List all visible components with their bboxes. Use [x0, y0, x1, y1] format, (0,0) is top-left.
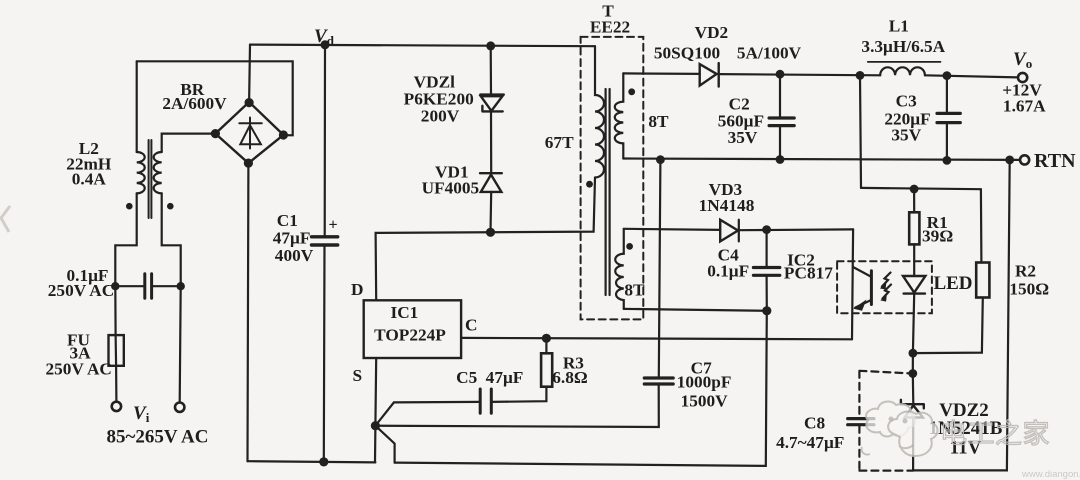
node Vd [321, 40, 330, 49]
transformer bias winding 8T [615, 229, 623, 309]
transformer bias phase dot [626, 243, 633, 250]
phototransistor emitter diagonal with arrow [855, 300, 871, 308]
wire VD3 to opto vertical [739, 228, 853, 231]
bridge node top [245, 98, 254, 107]
bridge BR diamond [215, 102, 283, 163]
wire VD1 to drain line [489, 192, 492, 233]
wire opto collector-emitter vertical [852, 229, 853, 339]
svg-text:+: + [328, 217, 337, 234]
svg-text:1000pF: 1000pF [677, 373, 732, 392]
svg-text:35V: 35V [728, 128, 758, 147]
transformer primary phase dot [586, 181, 593, 188]
node R1 top [910, 185, 919, 194]
wire bias return [624, 309, 767, 311]
fuse FU body [109, 335, 124, 366]
capacitor C4 plates [753, 268, 779, 276]
node C4 top [762, 225, 771, 234]
svg-text:200V: 200V [421, 107, 460, 126]
light arrow 2 head [880, 295, 887, 302]
node bias return junction [762, 306, 771, 315]
svg-text:0.1μF: 0.1μF [707, 262, 749, 281]
capacitor C3 bottom lead [946, 123, 948, 160]
svg-text:D: D [351, 280, 363, 299]
capacitor C3 plates [937, 113, 960, 122]
wire L2 left bottom jog [115, 193, 136, 286]
resistor R2 body [976, 263, 989, 298]
node VD1 drain junction [486, 228, 495, 237]
node S junction [371, 421, 380, 430]
svg-text:C3: C3 [896, 92, 917, 111]
svg-text:85~265V AC: 85~265V AC [107, 427, 209, 448]
wire bottom rail left part [248, 461, 376, 462]
wire bridge bottom drop [246, 163, 249, 461]
resistor R2 top lead [980, 189, 983, 262]
wire RTN rail [623, 159, 1020, 160]
bridge BR inner diode [239, 118, 261, 149]
diode LED of optocoupler [903, 276, 925, 294]
edge artifact smudge [1, 206, 10, 232]
svg-text:250V AC: 250V AC [48, 281, 114, 300]
capacitor C1 plates [312, 237, 338, 245]
node R3 top junction [542, 334, 551, 343]
svg-text:5A/100V: 5A/100V [737, 44, 802, 63]
wire S node to C7 bottom [375, 384, 658, 427]
wire top rail to bridge top [248, 45, 251, 102]
node C7 RTN junction [656, 155, 665, 164]
L2 phase dot right [167, 203, 174, 210]
svg-text:35V: 35V [891, 126, 921, 145]
diode VD2 [700, 63, 719, 87]
wire drain line [376, 178, 595, 301]
svg-text:67T: 67T [545, 133, 574, 152]
svg-text:1500V: 1500V [681, 392, 729, 411]
svg-text:150Ω: 150Ω [1009, 280, 1049, 299]
resistor R3 body [541, 353, 552, 386]
wire VDZ1 to VD1 [490, 111, 492, 173]
capacitor C1 top lead [324, 45, 326, 236]
light arrow 2 [883, 285, 892, 299]
inductor L2 core [149, 140, 152, 218]
capacitor C7 plates [644, 378, 673, 384]
node C2 bottom [776, 155, 785, 164]
inductor L1 winding [880, 67, 925, 75]
svg-text:8T: 8T [648, 112, 669, 131]
svg-text:4.7~47μF: 4.7~47μF [776, 433, 844, 452]
wire feedback tap drop before L1 [860, 75, 861, 187]
resistor R1 body [909, 212, 919, 244]
svg-text:2A/600V: 2A/600V [162, 94, 227, 113]
L1 label underline [868, 61, 941, 63]
wire LED cathode down [913, 294, 914, 404]
capacitor C1 bottom lead [323, 245, 326, 462]
wire feedback ground return [913, 160, 1010, 471]
svg-text:UF4005: UF4005 [422, 179, 480, 198]
inductor L2 left winding [137, 152, 145, 193]
zener VDZ2 [901, 400, 924, 418]
wire left input drop [136, 61, 138, 152]
bridge node bottom [244, 159, 253, 168]
L2 phase dot left [126, 203, 133, 210]
wire C pin line [461, 338, 852, 339]
phototransistor emitter arrowhead [853, 300, 866, 311]
terminal Vo [1018, 73, 1027, 82]
svg-text:C: C [465, 316, 477, 335]
diode VDZ1 (TVS) [480, 95, 504, 112]
watermark mascot cloud [862, 402, 938, 456]
capacitor C4 bottom lead [765, 276, 767, 311]
svg-text:www.diangon.co: www.diangon.co [1021, 469, 1080, 480]
optocoupler U2 dashed box [837, 261, 932, 313]
node top of VDZ1 branch [486, 41, 495, 50]
svg-text:LED: LED [933, 273, 972, 294]
capacitor C8 dashed leads and links [859, 371, 913, 471]
capacitor C8 plates [848, 419, 874, 425]
wire top rail Vd [250, 45, 595, 47]
diode VD1 [480, 173, 502, 192]
svg-text:EE22: EE22 [590, 18, 630, 37]
capacitor 0.1uF plates [145, 274, 152, 298]
wire VDZ1 branch top [490, 46, 492, 94]
transformer core [606, 89, 610, 295]
terminal Vi left [112, 402, 121, 411]
wire bottom rail right part [395, 311, 767, 466]
svg-text:R2: R2 [1015, 262, 1036, 281]
svg-text:8T: 8T [624, 281, 645, 300]
svg-text:47μF: 47μF [273, 229, 311, 248]
terminal RTN [1020, 155, 1029, 164]
phototransistor of optocoupler [870, 271, 873, 305]
node C1 bottom [319, 457, 328, 466]
IC U1 box TOP224P [364, 300, 461, 358]
svg-text:0.4A: 0.4A [72, 170, 107, 189]
resistor R1 top lead [913, 189, 915, 212]
node C2 top [776, 70, 785, 79]
light arrow 1 head [880, 283, 887, 290]
svg-text:TOP224P: TOP224P [374, 326, 446, 345]
capacitor C5 plates [480, 389, 491, 413]
wire output rail after L1 [925, 75, 1018, 77]
bridge node left [211, 129, 220, 138]
node X cap left [111, 282, 119, 290]
svg-text:39Ω: 39Ω [922, 227, 953, 246]
capacitor C2 top lead [779, 74, 781, 117]
svg-text:400V: 400V [275, 246, 314, 265]
wire secondary top to VD2 [623, 72, 699, 75]
svg-text:250V AC: 250V AC [45, 360, 111, 379]
transformer secondary winding 8T [615, 73, 624, 158]
svg-text:PC817: PC817 [784, 264, 833, 283]
capacitor C2 plates [769, 118, 794, 126]
resistor R2 bottom lead [913, 298, 983, 354]
node C8 tap junction [908, 369, 917, 378]
wire VD3 line from bias winding [624, 229, 720, 230]
diode VD3 cathode bar [738, 220, 740, 242]
capacitor C7 top lead [659, 160, 661, 378]
node LED R2 junction [909, 349, 918, 358]
capacitor C2 bottom lead [779, 126, 781, 160]
svg-text:1N4148: 1N4148 [699, 196, 755, 215]
svg-text:C1: C1 [277, 211, 298, 230]
wire VDZ2 anode down [912, 418, 914, 471]
svg-text:47μF: 47μF [486, 368, 524, 387]
svg-text:电工之家: 电工之家 [940, 419, 1050, 449]
svg-text:1.67A: 1.67A [1003, 97, 1046, 116]
wire feedback horizontal to R1 R2 [861, 188, 981, 189]
bridge node right [279, 130, 288, 139]
capacitor C4 top lead [765, 230, 767, 267]
wire S pin vertical [375, 358, 376, 462]
node L1 left junction [856, 71, 865, 80]
node C3 bottom [943, 156, 952, 165]
svg-text:50SQ100: 50SQ100 [654, 44, 720, 63]
svg-text:6.8Ω: 6.8Ω [552, 368, 588, 387]
svg-text:IC1: IC1 [390, 303, 418, 322]
wire AC loop top [137, 61, 293, 135]
wire L2 right to bridge left vertex [162, 134, 216, 152]
resistor R3 top lead [545, 338, 547, 353]
wire S node to bottom rail stub [375, 426, 394, 463]
svg-text:RTN: RTN [1034, 150, 1076, 172]
light arrow 1 [882, 273, 891, 287]
transformer secondary phase dot [628, 88, 635, 95]
transformer T dashed box [581, 37, 644, 320]
node C3 top [943, 71, 952, 80]
capacitor 0.1uF leads [115, 285, 180, 287]
wire C5 to R3 bottom [491, 387, 546, 402]
svg-text:C8: C8 [804, 414, 825, 433]
wire right leg to terminal [180, 286, 181, 402]
phototransistor collector diagonal [853, 267, 872, 277]
svg-text:C5: C5 [456, 368, 477, 387]
node RTN right junction [1005, 156, 1014, 165]
transformer primary winding 67T [595, 46, 604, 177]
wire L2 right bottom jog [162, 193, 181, 286]
diode VD3 [720, 220, 738, 242]
fuse FU through-wire [114, 335, 117, 402]
svg-text:3.3μH/6.5A: 3.3μH/6.5A [861, 37, 945, 56]
inductor L2 right winding [154, 152, 162, 193]
wire VD2 to output rail [719, 74, 881, 75]
capacitor C3 top lead [946, 76, 948, 113]
svg-text:S: S [352, 366, 362, 385]
svg-text:VD2: VD2 [695, 23, 729, 42]
svg-text:L1: L1 [889, 17, 909, 36]
terminal Vi right [175, 403, 184, 412]
node X cap right [177, 282, 185, 290]
resistor R1 bottom lead [913, 244, 915, 275]
wire S node to C5 lead [375, 402, 480, 426]
wire to fuse [114, 286, 116, 335]
